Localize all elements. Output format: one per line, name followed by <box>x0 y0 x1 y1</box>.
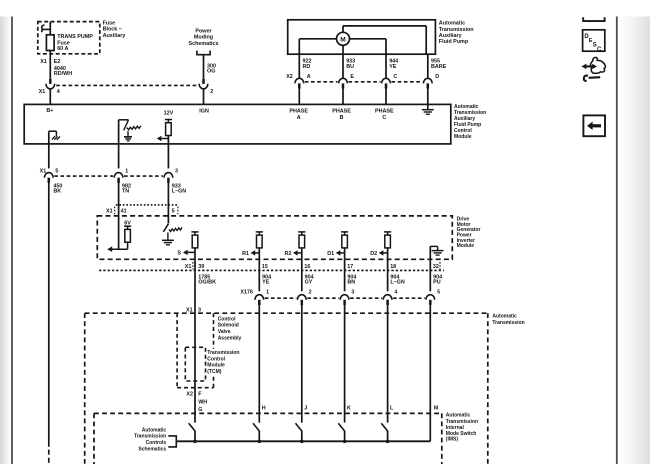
svg-text:X2: X2 <box>286 74 293 80</box>
connector X1 pin 1 <box>114 173 123 178</box>
svg-text:C: C <box>382 115 386 121</box>
svg-text:Auxiliary: Auxiliary <box>103 33 126 39</box>
wire: module pin 3 <box>167 144 169 169</box>
svg-text:2: 2 <box>309 290 312 296</box>
dashed harness line X2 row <box>305 81 338 83</box>
svg-text:M: M <box>434 406 439 412</box>
svg-text:BU: BU <box>346 64 354 70</box>
IMS common rail <box>176 440 430 442</box>
svg-text:(TCM): (TCM) <box>207 369 221 375</box>
toolbar icon: DESC button <box>583 30 605 51</box>
wire: motor to phase A <box>299 38 336 40</box>
svg-text:Assembly: Assembly <box>218 335 242 341</box>
dotted connector line X1 inverter bottom <box>99 269 444 271</box>
svg-text:1: 1 <box>125 169 128 175</box>
svg-text:TN: TN <box>122 189 129 195</box>
resistor on pin 16 (R2) <box>298 231 305 233</box>
svg-text:15: 15 <box>262 264 268 270</box>
svg-text:3: 3 <box>351 290 354 296</box>
svg-text:Schematics: Schematics <box>138 446 166 452</box>
wire: 450 BK ground run <box>48 182 50 447</box>
svg-text:H: H <box>262 406 266 412</box>
svg-text:D1: D1 <box>327 251 334 257</box>
svg-text:Automatic: Automatic <box>492 314 517 320</box>
automatic transmission auxiliary fluid pump control module U1 <box>24 104 451 143</box>
connector X176 pin 4 <box>383 295 392 300</box>
svg-text:PHASE: PHASE <box>375 108 394 114</box>
motor M1 <box>337 32 350 45</box>
svg-text:Automatic: Automatic <box>446 413 471 419</box>
svg-text:41: 41 <box>121 208 127 214</box>
svg-text:TRANS PUMP: TRANS PUMP <box>57 34 93 40</box>
internal ground (pin D side) <box>427 104 429 109</box>
wire: motor to phase B <box>342 45 344 78</box>
wire: 300 OG <box>203 55 205 79</box>
connector X176 pin 5 <box>426 295 435 300</box>
internal chassis ground branch <box>48 131 50 144</box>
off-page bracket <box>197 51 210 55</box>
transmission control module TCM dashed box <box>185 347 205 381</box>
wire: motor to phase C <box>350 38 387 40</box>
svg-text:16: 16 <box>304 264 310 270</box>
svg-text:B+: B+ <box>46 108 53 114</box>
svg-text:Valve: Valve <box>218 329 231 335</box>
svg-text:C: C <box>393 74 397 80</box>
wire: battery feed into fuse <box>49 22 51 79</box>
svg-text:PU: PU <box>433 280 441 286</box>
left page edge shading <box>0 17 11 464</box>
fuse element hook symbol <box>42 25 51 29</box>
svg-text:R1: R1 <box>242 251 249 257</box>
IMS switch contact H <box>253 423 259 431</box>
wire: 933 L-GN <box>167 182 169 224</box>
svg-text:Module: Module <box>457 243 475 249</box>
svg-text:RD: RD <box>303 64 311 70</box>
svg-text:BK: BK <box>53 189 61 195</box>
svg-text:(IMS): (IMS) <box>446 436 459 442</box>
IMS switch contact J <box>296 423 302 431</box>
internal output arrow <box>160 138 168 140</box>
svg-text:A: A <box>297 115 301 121</box>
svg-text:L–GN: L–GN <box>172 189 186 195</box>
dashed harness line X176 row <box>265 297 297 299</box>
connector X1 pin 4 <box>49 79 52 84</box>
resistor on pin 17 (D1) <box>341 231 348 233</box>
svg-text:Solenoid: Solenoid <box>218 323 239 329</box>
wire: 300 OG to module IGN <box>203 89 205 105</box>
svg-text:D: D <box>435 74 439 80</box>
wires from inverter pins down <box>194 259 196 313</box>
svg-text:GY: GY <box>305 280 313 286</box>
svg-text:G: G <box>198 407 202 413</box>
svg-text:PHASE: PHASE <box>332 108 351 114</box>
toolbar icon: partial box (top, cut off) <box>583 17 604 21</box>
connector X176 pin 2 <box>297 295 306 300</box>
svg-text:Automatic: Automatic <box>439 21 465 27</box>
svg-text:WH: WH <box>198 400 207 406</box>
wire: 1785 OG/BK through TCM <box>194 313 196 422</box>
svg-text:OG/BK: OG/BK <box>198 280 216 286</box>
svg-text:E: E <box>350 74 354 80</box>
svg-text:R2: R2 <box>284 251 291 257</box>
wire: motor case to D <box>342 26 344 32</box>
off-page bracket to controls schematics <box>168 436 176 447</box>
svg-text:Schematics: Schematics <box>189 41 219 47</box>
IMS switch contact L <box>381 423 387 431</box>
svg-text:Fluid Pump: Fluid Pump <box>439 39 469 45</box>
svg-text:32: 32 <box>433 264 439 270</box>
svg-text:K: K <box>347 406 351 412</box>
svg-text:D2: D2 <box>370 251 377 257</box>
svg-text:Control: Control <box>218 316 236 322</box>
svg-text:12V: 12V <box>164 110 174 116</box>
svg-text:X1: X1 <box>185 264 192 270</box>
toolbar icon: back button <box>583 115 605 136</box>
svg-text:L–GN: L–GN <box>390 280 404 286</box>
svg-text:Block –: Block – <box>103 27 122 33</box>
fuse block - auxiliary dashed box <box>38 22 100 54</box>
svg-text:18: 18 <box>390 264 396 270</box>
svg-text:E2: E2 <box>54 59 61 65</box>
resistor on pin 15 (R1) <box>256 231 263 233</box>
automatic transmission auxiliary fluid pump box <box>288 20 436 54</box>
connector X1 pin 2 <box>202 79 205 84</box>
internal junction arrow (982 TN) <box>112 248 128 250</box>
dotted connector line X1 inverter top <box>116 204 179 206</box>
svg-text:X1: X1 <box>39 89 46 95</box>
dashed harness line X1 lower row <box>54 175 113 177</box>
svg-text:3: 3 <box>175 169 178 175</box>
svg-text:Transmission: Transmission <box>492 320 524 326</box>
automatic transmission internal mode switch dashed box <box>94 412 442 414</box>
svg-text:X2: X2 <box>186 391 193 397</box>
svg-text:Transmission: Transmission <box>207 350 239 356</box>
svg-text:Transmission: Transmission <box>134 434 166 440</box>
svg-text:5: 5 <box>437 290 440 296</box>
svg-text:4: 4 <box>57 89 60 95</box>
connector X2 pin E <box>339 78 348 83</box>
svg-text:Moding: Moding <box>194 35 213 41</box>
connector X176 pin 3 <box>340 295 349 300</box>
svg-text:M: M <box>340 37 346 44</box>
svg-text:PHASE: PHASE <box>289 108 308 114</box>
svg-text:A: A <box>307 74 311 80</box>
svg-text:BN: BN <box>347 280 355 286</box>
IMS switch contact K <box>338 423 344 431</box>
resistor on pin 18 (D2) <box>384 231 391 233</box>
svg-text:5: 5 <box>55 169 58 175</box>
svg-text:1: 1 <box>266 290 269 296</box>
wire: 982 TN <box>118 182 120 250</box>
internal switch + coil to ground (933 L-GN) <box>163 224 168 232</box>
dashed harness line X1 row <box>56 84 197 86</box>
wire: module pin 5 <box>48 144 50 169</box>
internal relay switch + coil to ground <box>118 120 120 144</box>
svg-text:17: 17 <box>347 264 353 270</box>
wire: module pin 1 <box>118 144 120 169</box>
svg-text:X1: X1 <box>106 208 113 214</box>
svg-text:OG: OG <box>207 68 215 74</box>
svg-text:Auxiliary: Auxiliary <box>439 33 462 39</box>
wires X176 down into transmission <box>258 304 260 423</box>
svg-text:X1: X1 <box>40 59 47 65</box>
svg-text:Power: Power <box>195 28 212 34</box>
connector X1 pin 3 <box>164 173 173 178</box>
svg-text:X176: X176 <box>240 290 253 296</box>
svg-text:Control: Control <box>207 356 225 362</box>
svg-text:YE: YE <box>262 280 270 286</box>
IMS switch contact G <box>189 423 195 431</box>
connector X2 pin C <box>382 78 391 83</box>
svg-text:2: 2 <box>210 89 213 95</box>
svg-text:RD/WH: RD/WH <box>54 71 72 77</box>
svg-text:Transmission: Transmission <box>446 419 478 425</box>
svg-text:Transmission: Transmission <box>439 27 474 33</box>
toolbar icon: jump-to-repair (arrow + region + wrench) <box>591 57 606 73</box>
svg-text:Automatic: Automatic <box>142 427 167 433</box>
wires X2 pins down to control module <box>298 87 300 104</box>
automatic transmission dashed box <box>85 312 488 314</box>
svg-text:Internal: Internal <box>446 425 465 431</box>
svg-text:Fuse: Fuse <box>103 20 116 26</box>
fuse TRANS PUMP 60 A <box>46 35 54 51</box>
svg-text:B: B <box>340 115 344 121</box>
svg-text:S: S <box>177 250 181 256</box>
svg-text:C: C <box>597 47 602 53</box>
svg-text:IGN: IGN <box>199 108 209 114</box>
svg-text:Controls: Controls <box>146 440 167 446</box>
svg-text:39: 39 <box>198 264 204 270</box>
svg-text:5: 5 <box>172 208 175 214</box>
connector X2 pin D <box>423 78 432 83</box>
svg-text:YE: YE <box>389 64 397 70</box>
svg-text:Module: Module <box>454 134 472 140</box>
resistor on pin 39 (S) <box>191 231 198 233</box>
svg-text:60 A: 60 A <box>57 46 68 52</box>
svg-text:BARE: BARE <box>431 64 447 70</box>
svg-text:J: J <box>304 406 307 412</box>
control solenoid valve assembly dashed box <box>176 313 178 388</box>
svg-text:4: 4 <box>394 290 397 296</box>
right page edge shading <box>618 17 650 464</box>
svg-text:Module: Module <box>207 363 225 369</box>
internal ground on pin 32 <box>429 246 431 259</box>
wire: 4040 RD/WH to module B+ <box>49 89 51 105</box>
drive motor generator power inverter module dashed box <box>97 216 452 259</box>
